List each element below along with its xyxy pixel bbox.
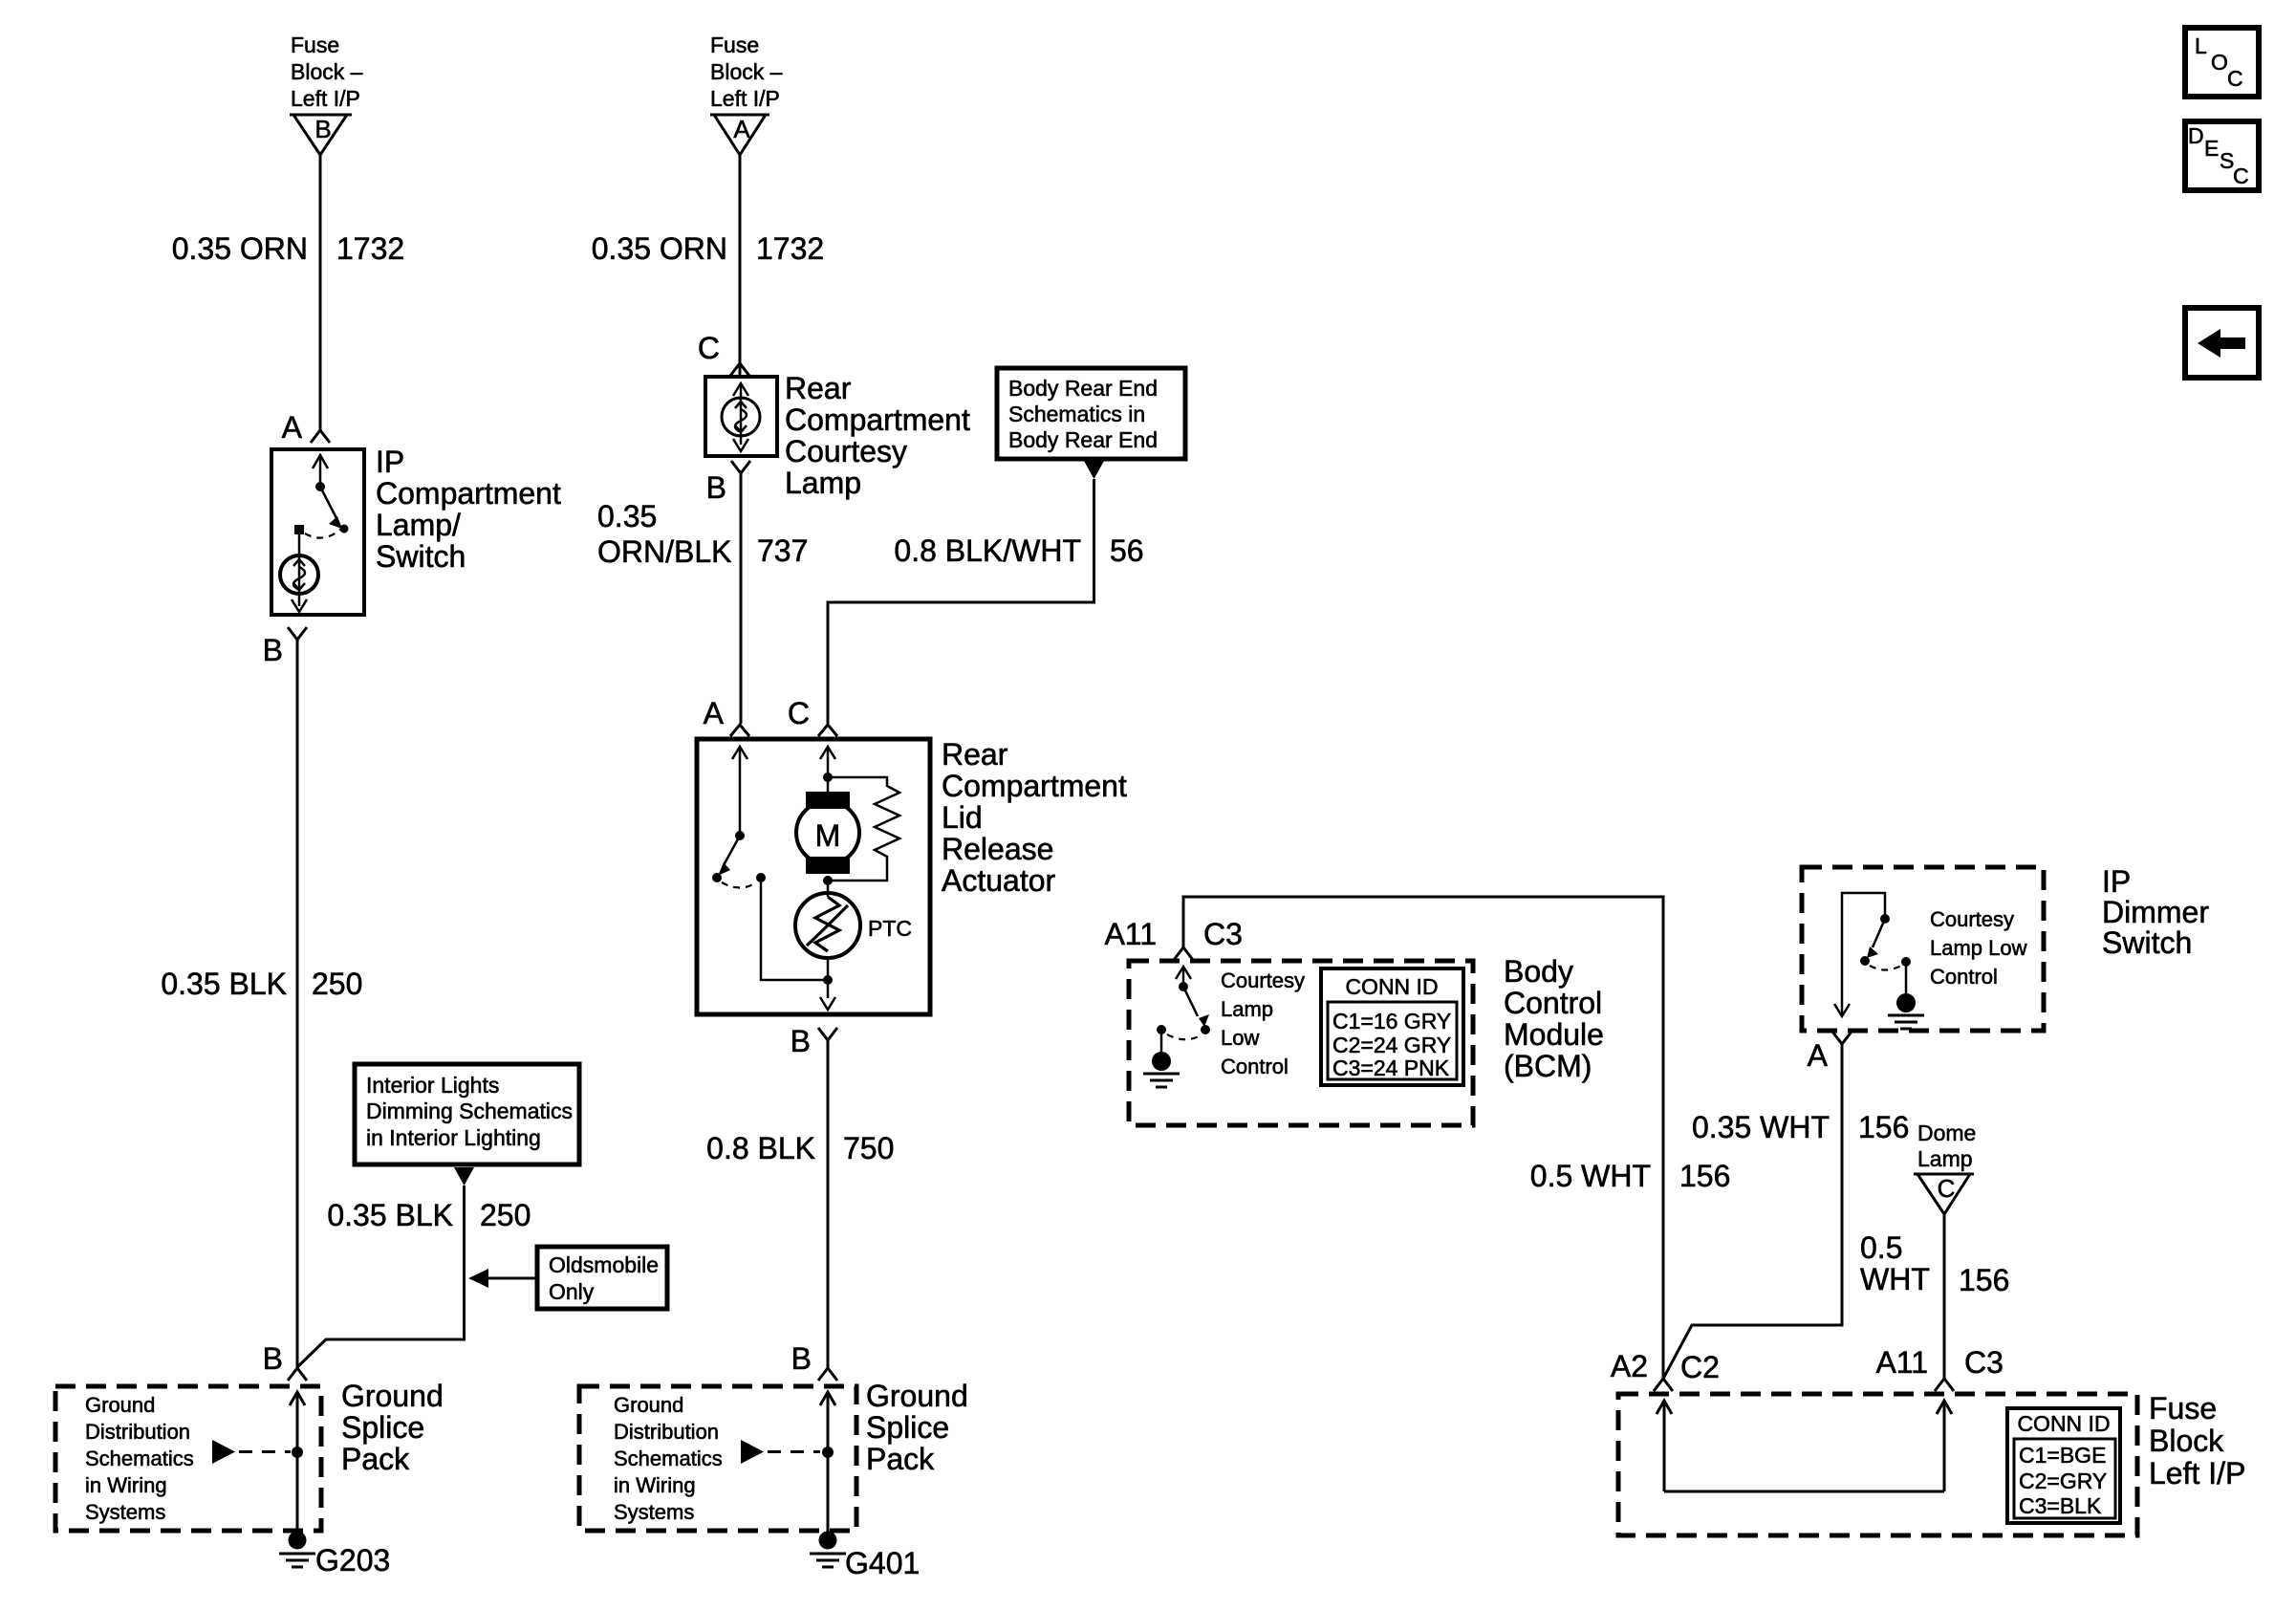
- svg-text:A: A: [282, 410, 303, 445]
- svg-text:0.35 ORN: 0.35 ORN: [592, 231, 727, 266]
- switch common node: [315, 482, 325, 491]
- connector chevron at actuator pin B: [818, 1028, 837, 1040]
- svg-text:B: B: [263, 633, 283, 667]
- Oldsmobile Only callout box: [537, 1247, 667, 1309]
- svg-text:C3=24 PNK: C3=24 PNK: [1332, 1055, 1450, 1080]
- ground G203 symbol: [279, 1532, 315, 1568]
- connector chevron at ground splice G203: [288, 1368, 307, 1381]
- connector triangle A (Fuse Block - Left I/P): [710, 115, 769, 155]
- svg-text:B: B: [791, 1024, 811, 1058]
- actuator output junction node: [823, 975, 833, 985]
- connector chevron at fuse block pin A2 C2: [1654, 1379, 1673, 1391]
- svg-text:(BCM): (BCM): [1504, 1049, 1592, 1083]
- svg-text:in Interior Lighting: in Interior Lighting: [366, 1125, 541, 1150]
- svg-text:0.5 WHT: 0.5 WHT: [1530, 1159, 1651, 1193]
- svg-text:Lamp Low: Lamp Low: [1930, 936, 2027, 960]
- svg-text:Low: Low: [1221, 1026, 1259, 1050]
- svg-text:Ground: Ground: [85, 1393, 155, 1417]
- svg-text:C: C: [788, 696, 810, 730]
- dimmer switch travel dashed arc: [1870, 966, 1901, 970]
- splice input arrow inside G203 box: [290, 1392, 305, 1533]
- wire: dimmer pin A to fuse block A2, 0.35 WHT 156: [1663, 1044, 1842, 1379]
- svg-text:Schematics in: Schematics in: [1008, 402, 1145, 426]
- svg-text:B: B: [791, 1341, 812, 1376]
- svg-text:Oldsmobile: Oldsmobile: [549, 1252, 659, 1277]
- actuator output arrow to pin B: [820, 980, 835, 1010]
- fuse block left I/P dashed box: [1618, 1394, 2137, 1535]
- svg-text:Lamp/: Lamp/: [376, 508, 461, 542]
- fuse block A11 input arrow: [1937, 1401, 1952, 1491]
- svg-text:A11: A11: [1875, 1345, 1928, 1380]
- ground distribution schematics note text G203: [85, 1393, 194, 1524]
- rear compartment courtesy lamp box: [705, 377, 777, 456]
- svg-text:Courtesy: Courtesy: [1930, 907, 2014, 931]
- Fuse Block Left I/P label: [2149, 1391, 2245, 1490]
- Ground Splice Pack label (middle): [866, 1379, 968, 1476]
- connector chevron at BCM pin A11 C3: [1174, 947, 1193, 960]
- svg-text:Interior Lights: Interior Lights: [366, 1073, 499, 1098]
- actuator switch blade with arrowhead: [718, 836, 740, 876]
- svg-text:ORN/BLK: ORN/BLK: [597, 534, 731, 569]
- BCM switch contact node: [1201, 1025, 1210, 1034]
- svg-text:Splice: Splice: [341, 1410, 424, 1445]
- connector chevron at dimmer pin A: [1832, 1032, 1852, 1044]
- BCM internal ground: [1143, 1030, 1180, 1087]
- svg-text:Body Rear End: Body Rear End: [1008, 427, 1158, 452]
- resistor (parallel with motor): [828, 777, 899, 881]
- svg-text:in Wiring: in Wiring: [85, 1473, 167, 1497]
- svg-text:Fuse: Fuse: [2149, 1391, 2217, 1425]
- svg-text:A11: A11: [1104, 917, 1157, 951]
- svg-text:56: 56: [1110, 533, 1144, 568]
- svg-text:C3=BLK: C3=BLK: [2019, 1493, 2102, 1518]
- svg-text:CONN ID: CONN ID: [1345, 974, 1438, 999]
- svg-text:Control: Control: [1930, 965, 1998, 989]
- svg-text:Body Rear End: Body Rear End: [1008, 376, 1158, 401]
- IP Dimmer Switch label: [2102, 864, 2209, 960]
- BCM CONN ID table: [1321, 968, 1463, 1085]
- svg-text:B: B: [706, 470, 726, 505]
- svg-text:Control: Control: [1504, 986, 1602, 1020]
- fuse block A2 input arrow: [1657, 1401, 1672, 1491]
- actuator pin C input arrow: [820, 747, 835, 794]
- switch blade with arrowhead: [320, 487, 342, 529]
- svg-text:A: A: [704, 696, 725, 730]
- courtesy lamp input arrow: [733, 383, 748, 400]
- wire: dome lamp C to fuse block A11, 0.5 WHT 156: [1943, 1214, 1946, 1379]
- svg-text:Dimming Schematics: Dimming Schematics: [366, 1099, 573, 1123]
- LOC legend box: [2185, 28, 2259, 97]
- svg-text:Lid: Lid: [942, 800, 983, 835]
- svg-text:Compartment: Compartment: [376, 476, 561, 511]
- IP dimmer switch dashed box: [1802, 867, 2044, 1031]
- svg-text:Distribution: Distribution: [85, 1420, 190, 1444]
- svg-text:Switch: Switch: [376, 539, 466, 574]
- reference arrowhead into interior lights box: [454, 1167, 474, 1186]
- svg-text:Schematics: Schematics: [85, 1447, 194, 1470]
- svg-text:Dome: Dome: [1917, 1120, 1976, 1145]
- svg-text:Dimmer: Dimmer: [2102, 895, 2209, 929]
- svg-text:0.8 BLK/WHT: 0.8 BLK/WHT: [894, 533, 1081, 568]
- svg-text:Left I/P: Left I/P: [710, 86, 780, 111]
- splice input arrow inside G401 box: [820, 1392, 835, 1533]
- svg-text:C2=24 GRY: C2=24 GRY: [1332, 1033, 1451, 1057]
- svg-text:Lamp: Lamp: [1917, 1146, 1973, 1171]
- svg-text:L: L: [2195, 33, 2207, 58]
- svg-text:Pack: Pack: [341, 1442, 410, 1476]
- svg-text:C: C: [2233, 163, 2249, 188]
- wire: actuator pin B to ground splice pack, 0.8 BLK 750: [827, 1040, 830, 1367]
- svg-text:G401: G401: [845, 1546, 920, 1580]
- svg-text:Pack: Pack: [866, 1442, 935, 1476]
- svg-text:0.35 ORN: 0.35 ORN: [172, 231, 308, 266]
- back-arrow legend box: [2185, 308, 2259, 378]
- svg-text:Actuator: Actuator: [942, 863, 1056, 898]
- dimmer courtesy lamp low control text: [1930, 907, 2027, 989]
- svg-text:Systems: Systems: [85, 1500, 165, 1524]
- connector chevron at actuator pin C: [818, 725, 837, 736]
- connector chevron at actuator pin A: [730, 725, 749, 736]
- connector chevron at fuse block pin A11 C3: [1935, 1379, 1954, 1391]
- svg-text:IP: IP: [2102, 864, 2131, 899]
- node: Fuse Block - Left I/P (feed B) label: [291, 33, 363, 111]
- IP compartment lamp/switch box: [271, 449, 364, 615]
- fuse block internal bus wire: [1664, 1490, 1944, 1493]
- svg-text:156: 156: [1679, 1159, 1730, 1193]
- svg-text:Block –: Block –: [710, 59, 783, 84]
- svg-text:Block: Block: [2149, 1424, 2224, 1458]
- connector chevron at lamp pin C: [730, 363, 749, 376]
- svg-text:250: 250: [480, 1198, 531, 1232]
- pin A arrow inside switch: [313, 455, 328, 487]
- splice junction node G401: [822, 1447, 834, 1458]
- svg-text:0.35: 0.35: [597, 499, 657, 533]
- svg-text:C: C: [1938, 1174, 1956, 1203]
- wire: BCM A11 to fuse block A2, 0.5 WHT 156: [1183, 897, 1663, 1379]
- IP Compartment Lamp/Switch label: [376, 445, 561, 574]
- actuator switch travel dashed arc: [722, 882, 756, 888]
- svg-text:C2=GRY: C2=GRY: [2019, 1469, 2107, 1493]
- IP compartment lamp bulb: [280, 555, 318, 594]
- connector chevron at ground splice G401: [818, 1368, 837, 1381]
- svg-text:250: 250: [312, 967, 362, 1001]
- resistor return node (motor bottom): [823, 876, 833, 885]
- svg-text:737: 737: [757, 533, 808, 568]
- DESC legend box: [2185, 121, 2259, 190]
- svg-text:E: E: [2204, 136, 2219, 161]
- svg-text:0.5: 0.5: [1860, 1230, 1902, 1265]
- svg-text:Control: Control: [1221, 1055, 1289, 1078]
- dimmer switch ground contact node: [1901, 957, 1911, 967]
- svg-text:B: B: [314, 115, 331, 143]
- svg-text:Courtesy: Courtesy: [1221, 968, 1305, 992]
- ground distribution dashed pointer G203: [212, 1440, 291, 1464]
- svg-text:Only: Only: [549, 1279, 595, 1304]
- actuator switch left contact node: [712, 873, 722, 882]
- svg-text:WHT: WHT: [1860, 1262, 1930, 1296]
- svg-text:156: 156: [1959, 1263, 2009, 1297]
- Ground Splice Pack label (left): [341, 1379, 444, 1476]
- Body Control Module (BCM) label: [1504, 954, 1604, 1083]
- svg-text:CONN ID: CONN ID: [2017, 1411, 2110, 1436]
- BCM ground stem node: [1157, 1025, 1166, 1034]
- svg-text:Distribution: Distribution: [614, 1420, 719, 1444]
- svg-text:Body: Body: [1504, 954, 1573, 989]
- wire: actuator switch contact to output junction: [761, 878, 828, 980]
- svg-text:C1=BGE: C1=BGE: [2019, 1443, 2106, 1468]
- svg-text:Fuse: Fuse: [710, 33, 759, 57]
- svg-text:Ground: Ground: [614, 1393, 683, 1417]
- node: Dome Lamp label: [1917, 1120, 1976, 1171]
- lamp contact square: [294, 525, 304, 534]
- svg-text:Compartment: Compartment: [942, 769, 1127, 803]
- BCM courtesy lamp low control text: [1221, 968, 1305, 1078]
- svg-text:Release: Release: [942, 832, 1053, 866]
- svg-text:156: 156: [1858, 1110, 1909, 1144]
- wire: motor to PTC: [827, 876, 830, 897]
- svg-text:Lamp: Lamp: [785, 466, 861, 500]
- dimmer switch internal ground: [1888, 962, 1924, 1029]
- connector triangle B (Fuse Block - Left I/P): [290, 115, 352, 155]
- svg-text:A2: A2: [1611, 1349, 1648, 1383]
- ground splice pack G401 dashed box: [579, 1386, 856, 1531]
- svg-text:0.8 BLK: 0.8 BLK: [706, 1131, 815, 1165]
- dimmer switch feed node: [1880, 914, 1890, 924]
- dimmer output arrow: [1834, 1004, 1850, 1016]
- ground splice pack G203 dashed box: [55, 1386, 321, 1531]
- svg-text:C: C: [2227, 66, 2243, 91]
- svg-text:G203: G203: [315, 1543, 390, 1577]
- ground G401 symbol: [810, 1532, 846, 1568]
- svg-text:M: M: [815, 818, 841, 853]
- svg-text:Systems: Systems: [614, 1500, 694, 1524]
- dimmer switch blade with arrowhead: [1867, 919, 1885, 958]
- BCM switch travel dashed arc: [1167, 1034, 1201, 1039]
- node: Fuse Block - Left I/P (feed A) label: [710, 33, 783, 111]
- BCM switch blade with arrowhead: [1183, 987, 1209, 1027]
- svg-text:Module: Module: [1504, 1017, 1604, 1052]
- svg-text:Compartment: Compartment: [785, 402, 970, 437]
- svg-text:IP: IP: [376, 445, 404, 479]
- splice junction node G203: [292, 1447, 303, 1458]
- svg-text:Block –: Block –: [291, 59, 363, 84]
- svg-text:Splice: Splice: [866, 1410, 949, 1445]
- svg-text:C1=16 GRY: C1=16 GRY: [1332, 1009, 1451, 1033]
- svg-text:A: A: [1808, 1038, 1829, 1073]
- svg-text:C2: C2: [1680, 1350, 1720, 1384]
- svg-text:0.35 WHT: 0.35 WHT: [1692, 1110, 1830, 1144]
- BCM switch common node: [1179, 982, 1188, 991]
- actuator pin A input arrow: [732, 747, 747, 836]
- svg-text:O: O: [2211, 50, 2228, 75]
- body rear end schematics reference box: [997, 368, 1185, 459]
- wire: IP lamp switch pin B to ground splice pack, 0.35 BLK 250: [296, 640, 299, 1367]
- BCM courtesy lamp driver arrow: [1176, 967, 1191, 987]
- svg-text:Schematics: Schematics: [614, 1447, 723, 1470]
- svg-text:1732: 1732: [336, 231, 404, 266]
- svg-text:C: C: [698, 331, 720, 365]
- courtesy lamp bulb: [722, 398, 760, 436]
- dimmer switch left contact node: [1860, 956, 1870, 966]
- switch throw contact node: [340, 525, 349, 533]
- lamp stem wire: [298, 534, 301, 555]
- ground distribution dashed pointer G401: [741, 1440, 820, 1464]
- switch travel dashed arc: [305, 530, 340, 538]
- svg-text:D: D: [2188, 123, 2204, 148]
- ground distribution schematics note text G401: [614, 1393, 723, 1524]
- svg-text:Rear: Rear: [942, 737, 1008, 772]
- Oldsmobile Only callout arrow: [468, 1269, 537, 1288]
- wire label 0.5 WHT (dome leg): [1860, 1230, 1930, 1296]
- svg-text:C3: C3: [1203, 917, 1243, 951]
- svg-text:C3: C3: [1964, 1345, 2004, 1380]
- svg-text:PTC: PTC: [868, 916, 912, 941]
- courtesy lamp output arrow: [733, 434, 748, 451]
- wire: body rear end to actuator pin C, 0.8 BLK/WHT 56: [828, 479, 1094, 724]
- wire: fuse block A to rear courtesy lamp pin C, 0.35 ORN 1732: [739, 155, 742, 377]
- Rear Compartment Lid Release Actuator label: [942, 737, 1127, 898]
- resistor tap node (motor top): [823, 772, 833, 782]
- reference arrowhead from body rear end box: [1084, 461, 1104, 479]
- svg-text:0.35 BLK: 0.35 BLK: [327, 1198, 453, 1232]
- Rear Compartment Courtesy Lamp label: [785, 371, 970, 500]
- lamp output arrow to pin B: [292, 594, 307, 612]
- connector chevron at lamp pin B: [731, 461, 750, 473]
- actuator switch right contact node: [756, 873, 766, 882]
- interior lights dimming schematics reference box: [355, 1064, 579, 1164]
- svg-text:750: 750: [843, 1131, 894, 1165]
- svg-text:1732: 1732: [756, 231, 824, 266]
- svg-text:Switch: Switch: [2102, 925, 2192, 960]
- connector chevron at pin A: [311, 430, 330, 443]
- svg-text:A: A: [733, 115, 750, 143]
- connector triangle C (Dome Lamp): [1914, 1174, 1974, 1214]
- wire label 0.35 ORN/BLK: [597, 499, 731, 569]
- svg-text:Lamp: Lamp: [1221, 997, 1273, 1021]
- wire: fuse block B to IP compartment lamp/switch pin A, 0.35 ORN 1732: [319, 155, 322, 430]
- svg-text:in Wiring: in Wiring: [614, 1473, 696, 1497]
- PTC thermistor: [795, 893, 860, 958]
- dimmer switch internal wire: [1842, 893, 1885, 1016]
- fuse block CONN ID table: [2007, 1408, 2120, 1523]
- connector chevron at pin B: [288, 627, 307, 640]
- svg-text:Left I/P: Left I/P: [291, 86, 360, 111]
- wire: PTC to output junction: [827, 959, 830, 980]
- svg-text:Left I/P: Left I/P: [2149, 1456, 2245, 1490]
- svg-text:Ground: Ground: [341, 1379, 444, 1413]
- body control module dashed box: [1129, 961, 1473, 1125]
- svg-text:Fuse: Fuse: [291, 33, 339, 57]
- svg-text:0.35 BLK: 0.35 BLK: [161, 967, 287, 1001]
- motor M: [796, 792, 859, 874]
- svg-text:B: B: [263, 1341, 283, 1376]
- wire: courtesy lamp pin B to actuator pin A, 0.35 ORN/BLK 737: [740, 473, 743, 724]
- svg-text:Courtesy: Courtesy: [785, 434, 907, 468]
- rear compartment lid release actuator box: [697, 739, 930, 1014]
- svg-text:Ground: Ground: [866, 1379, 968, 1413]
- actuator switch common node: [735, 831, 745, 840]
- svg-text:Rear: Rear: [785, 371, 852, 405]
- wire: interior lights branch to ground splice, 0.35 BLK 250: [297, 1186, 465, 1367]
